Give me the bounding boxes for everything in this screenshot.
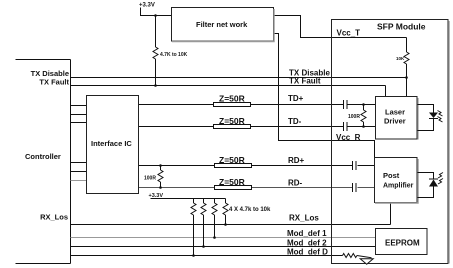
capacitor C2 on TD- xyxy=(344,122,348,131)
svg-text:Z=50R: Z=50R xyxy=(219,177,245,187)
wire RD- xyxy=(139,187,375,189)
wire controller bottom xyxy=(16,263,71,265)
wire TX Fault drop to laser driver xyxy=(385,86,387,97)
wire stub 1 controller to interface IC xyxy=(71,105,87,107)
IC U3 Post Amplifier xyxy=(375,158,419,204)
wire TD+ xyxy=(139,104,376,106)
svg-text:Driver: Driver xyxy=(384,117,406,126)
wire controller bus xyxy=(70,60,72,264)
IC U4 EEPROM xyxy=(376,229,428,255)
svg-text:Z=50R: Z=50R xyxy=(219,116,245,126)
svg-text:RD-: RD- xyxy=(288,179,303,188)
wire resistor to ground xyxy=(357,256,372,258)
photodiode D2 xyxy=(418,173,444,198)
resistor R1 4.7K to 10K pullup on TX Fault xyxy=(153,14,158,87)
svg-text:Controller: Controller xyxy=(25,152,61,161)
impedance Z=50R 1 on TD+ xyxy=(214,94,251,107)
svg-text:+3.3V: +3.3V xyxy=(139,3,155,9)
resistor R6 pullup to Mod_def 2 xyxy=(201,199,206,248)
wire stub 4 xyxy=(71,162,87,164)
wire filter output to Vcc_T xyxy=(274,16,407,38)
wire TX Fault xyxy=(71,85,386,87)
SFP module box xyxy=(332,20,450,264)
wire Mod_def 1 xyxy=(71,237,376,239)
wire RX_Los to post amplifier xyxy=(390,203,392,225)
resistor R2 10K pullup on TX Disable xyxy=(404,38,409,97)
svg-text:Z=50R: Z=50R xyxy=(219,155,245,165)
svg-text:TX Fault: TX Fault xyxy=(289,77,321,86)
svg-text:Interface IC: Interface IC xyxy=(91,139,132,148)
capacitor C1 on TD+ xyxy=(344,100,348,109)
wire +3.3V feed to filter xyxy=(141,8,172,16)
laser diode D1 xyxy=(418,105,443,131)
wire controller top xyxy=(16,59,71,61)
svg-text:TD+: TD+ xyxy=(288,94,304,103)
wire stub 6 xyxy=(71,180,87,182)
resistor R9 on Mod_def 0 to ground xyxy=(343,254,357,258)
wire TD- xyxy=(139,126,376,128)
wire stub 3 xyxy=(71,122,87,124)
wire RD+ xyxy=(139,165,375,167)
resistor R3 100R between TD+ and TD- xyxy=(361,103,366,128)
svg-text:100R: 100R xyxy=(348,114,360,120)
svg-text:4.7K to 10K: 4.7K to 10K xyxy=(160,52,188,58)
svg-text:Mod_def 2: Mod_def 2 xyxy=(287,239,327,248)
IC U1 Interface IC xyxy=(87,96,139,194)
impedance Z=50R 4 on RD- xyxy=(215,177,252,190)
ground xyxy=(360,259,373,265)
svg-text:10K: 10K xyxy=(396,56,405,61)
svg-text:SFP Module: SFP Module xyxy=(377,22,426,32)
wire stub 2 xyxy=(71,114,87,116)
svg-text:Amplifier: Amplifier xyxy=(383,183,414,190)
impedance Z=50R 3 on RD+ xyxy=(215,155,252,168)
wire Vcc_R from filter to post amplifier xyxy=(274,34,375,158)
block Filter net work xyxy=(172,8,275,42)
svg-text:Post: Post xyxy=(383,171,400,180)
svg-text:RX_Los: RX_Los xyxy=(40,213,68,222)
wire RX_Los xyxy=(71,224,391,226)
resistor R4 100R between RD+ and RD- xyxy=(158,164,163,189)
svg-text:Mod_def 1: Mod_def 1 xyxy=(287,229,327,238)
svg-text:Filter net work: Filter net work xyxy=(196,20,248,29)
svg-text:RX_Los: RX_Los xyxy=(289,214,319,223)
wire TX Disable xyxy=(71,77,407,79)
svg-text:Mod_def D: Mod_def D xyxy=(287,248,328,257)
svg-text:Vcc_R: Vcc_R xyxy=(336,133,361,142)
impedance Z=50R 2 on TD- xyxy=(214,116,251,129)
svg-text:+3.3V: +3.3V xyxy=(149,193,164,199)
svg-text:TX Fault: TX Fault xyxy=(39,78,69,87)
svg-text:Vcc_T: Vcc_T xyxy=(337,29,361,38)
svg-text:Z=50R: Z=50R xyxy=(219,94,245,104)
IC U2 Laser Driver xyxy=(376,97,419,140)
svg-text:EEPROM: EEPROM xyxy=(385,239,420,248)
capacitor C3 on RD+ xyxy=(353,161,357,170)
svg-text:TD-: TD- xyxy=(288,117,302,126)
resistor R8 pullup to RX_Los xyxy=(223,199,228,226)
wire +3.3V pullup rail xyxy=(151,198,226,200)
wire Mod_def 0 xyxy=(71,255,343,257)
resistor R7 pullup to Mod_def 1 xyxy=(212,199,217,239)
resistor R5 pullup to Mod_def 0 xyxy=(191,199,196,257)
svg-text:Laser: Laser xyxy=(385,108,405,117)
capacitor C4 on RD- xyxy=(353,183,357,192)
svg-text:RD+: RD+ xyxy=(288,156,305,165)
svg-text:4 X 4.7k to 10k: 4 X 4.7k to 10k xyxy=(229,207,271,213)
wire Mod_def 2 xyxy=(71,246,376,248)
wire stub 5 xyxy=(71,171,87,173)
svg-text:100R: 100R xyxy=(144,176,156,182)
